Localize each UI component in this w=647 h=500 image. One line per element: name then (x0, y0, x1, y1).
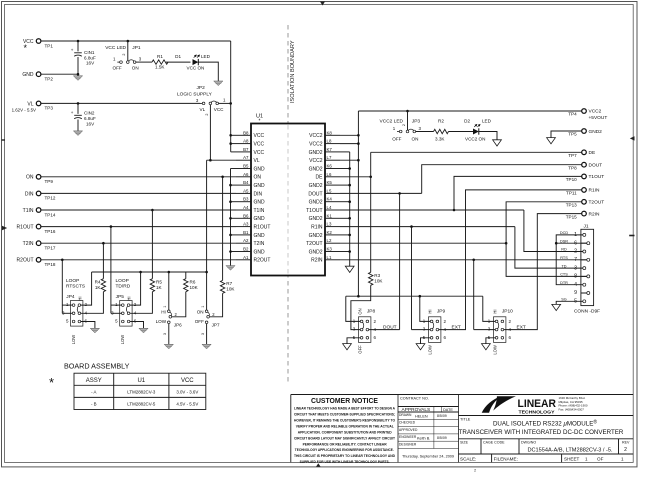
U1 pin B7 (VCC) stub (236, 147, 264, 156)
net label VCC2 +5VOUT (589, 109, 608, 121)
wire R2OUT signal TP18 to A1 (41, 259, 236, 261)
svg-text:1.5K: 1.5K (155, 65, 165, 70)
svg-text:TITLE: TITLE (460, 418, 471, 422)
R3 value labels (374, 273, 383, 284)
svg-text:HI: HI (427, 309, 432, 313)
test point TP4 (582, 109, 587, 114)
junction GND/B6 (229, 217, 232, 220)
wire T1IN drop to R5 (151, 210, 153, 279)
wire R1IN drop to JP9 pin3 (411, 227, 413, 330)
test point TP8 (582, 162, 587, 167)
svg-text:CIRCUIT BOARD LAYOUT MAY SIGNI: CIRCUIT BOARD LAYOUT MAY SIGNIFICANTLY A… (294, 436, 396, 440)
svg-text:TP11: TP11 (566, 191, 577, 196)
svg-text:3: 3 (201, 333, 205, 335)
ground GND2 vertical (345, 266, 354, 272)
op-module U1 LTM2882 body (251, 124, 325, 276)
svg-text:2: 2 (402, 124, 406, 126)
svg-text:CTS: CTS (560, 273, 568, 277)
title block frame (291, 395, 633, 463)
wire GND2 vertical (349, 152, 351, 266)
svg-text:SIZE: SIZE (460, 440, 469, 444)
junction R2IN/JP10 (472, 259, 475, 262)
svg-text:DC1554A-A/B, LTM2882CV-3 / -5.: DC1554A-A/B, LTM2882CV-3 / -5. (527, 448, 613, 454)
U1 pin K8 (VCC2) stub (309, 130, 340, 139)
svg-text:LOW: LOW (71, 335, 76, 345)
svg-text:VCC2 LED: VCC2 LED (380, 118, 404, 124)
junction HI rail/VCC2 vertical (357, 295, 360, 298)
wire JP4 pin3 stub (62, 312, 72, 314)
svg-text:K4: K4 (327, 197, 333, 202)
wire JP7 pin3 to ground (206, 324, 208, 345)
wire JP10 pin3 stub (474, 329, 496, 331)
wire JP10 pin5 to ground (486, 338, 495, 344)
svg-text:TP7: TP7 (568, 153, 577, 158)
svg-text:VERIFY PROPER AND RELIABLE OPE: VERIFY PROPER AND RELIABLE OPERATION IN … (296, 424, 395, 428)
svg-text:8/5/09: 8/5/09 (437, 414, 447, 418)
svg-text:JP7: JP7 (212, 323, 220, 328)
svg-text:R7: R7 (226, 281, 232, 286)
U1 pin K1 (GND2) stub (309, 213, 340, 222)
wire CIN2 top lead (77, 103, 79, 114)
svg-text:DESIGNER: DESIGNER (399, 442, 417, 446)
svg-text:LOOP: LOOP (66, 278, 79, 284)
svg-text:HELEN: HELEN (415, 414, 428, 418)
svg-text:B5: B5 (243, 164, 249, 169)
wire JP9 pin3 stub (412, 329, 431, 331)
svg-text:TP12: TP12 (45, 196, 56, 201)
svg-text:TP13: TP13 (566, 203, 577, 208)
CIN2 value labels (84, 111, 96, 127)
U1 pin L4 (T1OUT) stub (306, 205, 340, 214)
J1 pin 1 (DCD) (560, 231, 586, 238)
wire D1 cathode to ground (198, 62, 218, 81)
svg-text:U1: U1 (137, 378, 145, 384)
wire VL pull-up rail (92, 271, 207, 273)
wire GND TP2 (41, 73, 78, 75)
svg-text:T1OUT: T1OUT (306, 208, 322, 214)
svg-text:Fax: (408)434-0507: Fax: (408)434-0507 (559, 407, 585, 411)
junction DOUT/JP8 (398, 192, 401, 195)
U1 reference label (256, 114, 263, 125)
svg-text:OFF: OFF (392, 137, 401, 142)
U1 pin B3 (GND) stub (236, 197, 265, 206)
svg-text:TP10: TP10 (566, 177, 577, 182)
junction GND2/K3 (348, 250, 351, 253)
svg-text:K6: K6 (327, 164, 333, 169)
wire R5 to JP5 pin4 (130, 292, 152, 314)
svg-text:1: 1 (201, 306, 205, 308)
wire ON drop to R7 (222, 177, 224, 281)
ground JP9 (416, 344, 425, 350)
svg-text:GND: GND (254, 166, 266, 172)
svg-text:1: 1 (585, 456, 588, 461)
svg-text:GND: GND (254, 249, 266, 255)
R5 value labels (156, 279, 163, 290)
svg-text:J1: J1 (584, 223, 589, 229)
wire R6 to JP6 pin2 (172, 292, 186, 317)
wire L7 to VCC2 vertical (340, 159, 358, 161)
svg-text:1: 1 (621, 456, 624, 461)
test point TP14 (36, 208, 41, 213)
board assembly table (74, 373, 206, 409)
svg-text:VCC: VCC (181, 378, 194, 384)
svg-text:L7: L7 (327, 155, 332, 160)
JP4 pin numbers (62, 302, 88, 323)
svg-text:TP8: TP8 (568, 165, 577, 170)
svg-text:VCC2: VCC2 (309, 133, 323, 139)
svg-text:DATE: DATE (443, 408, 453, 412)
svg-text:L8: L8 (327, 139, 332, 144)
svg-text:3: 3 (163, 333, 167, 335)
svg-text:R2OUT: R2OUT (254, 258, 271, 264)
junction R2OUT/JP4 (61, 259, 64, 262)
ground JP8 (343, 344, 352, 350)
svg-text:VCC ON: VCC ON (187, 66, 205, 71)
ground JP5 (139, 328, 148, 333)
wire B1 connect (231, 234, 237, 236)
U1 pin A5 (DIN) stub (236, 188, 263, 197)
svg-text:TP1: TP1 (45, 43, 54, 48)
svg-text:LOW: LOW (493, 345, 498, 355)
svg-text:VCC2 ON: VCC2 ON (465, 137, 485, 142)
svg-text:CIN1: CIN1 (84, 50, 95, 55)
ground below CIN1 (73, 76, 82, 81)
wire B4 connect (231, 184, 237, 186)
wire JP5 pin6 to ground (130, 322, 143, 329)
resistor R2 (434, 129, 449, 133)
svg-text:RTS: RTS (560, 256, 568, 260)
svg-text:R2OUT: R2OUT (17, 258, 34, 264)
junction GND/CIN1 (77, 73, 80, 76)
svg-text:TP4: TP4 (568, 112, 577, 117)
svg-text:LOOP: LOOP (116, 278, 129, 284)
U1 pin K6 (GND2) stub (309, 164, 340, 173)
test point TP16 (36, 224, 41, 229)
svg-text:D1: D1 (175, 54, 181, 59)
isolation boundary dashed line (287, 25, 289, 385)
wire R1IN to J1 TD (515, 227, 583, 269)
svg-text:- B: - B (91, 402, 97, 407)
svg-text:T2OUT: T2OUT (306, 241, 322, 247)
junction GND2/K4 (348, 200, 351, 203)
wire K6 to GND2 vertical (340, 168, 350, 170)
svg-text:TD/RD: TD/RD (116, 284, 131, 290)
svg-text:D2: D2 (464, 119, 470, 124)
svg-text:L2: L2 (327, 238, 332, 243)
wire JP5 pin3 stub (111, 312, 122, 314)
svg-text:ON: ON (26, 175, 34, 181)
U1 pin L8 (VCC2) stub (309, 139, 340, 148)
wire R2OUT drop to JP4 (61, 260, 63, 314)
border tick right upper (630, 136, 635, 140)
svg-text:1.62V - 5.5V: 1.62V - 5.5V (12, 107, 36, 112)
border tick left middle (2, 226, 7, 230)
junction VCC2/L8 (357, 142, 360, 145)
logo address block (559, 396, 588, 411)
junction VCC/CIN1 (77, 40, 80, 43)
J1 pin 8 (CTS) (560, 273, 590, 280)
wire VCC2 HI rail (346, 295, 483, 297)
junction T1OUT/TP10 (453, 209, 456, 212)
svg-text:R2: R2 (438, 119, 444, 124)
svg-text:TP2: TP2 (45, 77, 54, 82)
wire T1OUT to J1 RD (524, 210, 583, 252)
U1 pin B1 (GND) stub (236, 230, 265, 239)
wire JP3 pin3 to R2 (416, 131, 434, 133)
svg-text:3.0V - 3.6V: 3.0V - 3.6V (176, 390, 198, 395)
svg-text:A5: A5 (243, 188, 249, 193)
svg-text:LTM2882CV-5: LTM2882CV-5 (127, 402, 156, 407)
resistor R3 (369, 272, 373, 285)
wire T2IN drop to R4 (102, 243, 104, 279)
JP8 pin numbers (353, 319, 377, 341)
svg-text:JP5: JP5 (116, 294, 125, 300)
junction GND2/K5 (348, 184, 351, 187)
test point TP17 (36, 241, 41, 246)
svg-text:*: * (49, 375, 54, 390)
svg-text:DUAL ISOLATED RS232 μMODULE®: DUAL ISOLATED RS232 μMODULE® (493, 418, 597, 427)
junction VCC2/L7 (357, 159, 360, 162)
resistor R6 (184, 279, 188, 292)
junction VL rail2 end (205, 271, 208, 274)
svg-text:6.8uF: 6.8uF (84, 55, 96, 60)
junction rail/JP5 pin2 (139, 271, 142, 274)
svg-text:GND2: GND2 (309, 216, 323, 222)
LED D1 (193, 55, 200, 65)
svg-text:A3: A3 (243, 222, 249, 227)
svg-text:VCC2: VCC2 (589, 109, 602, 115)
U1 pin L2 (T2OUT) stub (306, 238, 340, 247)
wire VCC2 rail to TP4 (358, 110, 581, 112)
svg-text:R1IN: R1IN (589, 188, 600, 194)
svg-text:TECHNOLOGY APPLICATIONS ENGINE: TECHNOLOGY APPLICATIONS ENGINEERING FOR … (295, 448, 394, 452)
svg-text:+5VOUT: +5VOUT (589, 115, 608, 121)
wire DOUT riser to TP8 (422, 165, 582, 194)
svg-text:PERFORMANCE OR RELIABILITY. C: PERFORMANCE OR RELIABILITY. CONTACT LINE… (303, 442, 387, 446)
svg-text:GND2: GND2 (309, 200, 323, 206)
R4 value labels (95, 279, 102, 290)
svg-text:B1: B1 (243, 230, 249, 235)
svg-text:EXT: EXT (517, 324, 526, 330)
svg-text:L6: L6 (327, 172, 332, 177)
ground JP6 (164, 344, 173, 349)
jumper JP6 (168, 310, 172, 324)
wire JP2 pin1 to VCC vertical (219, 102, 231, 104)
wire B8 connect (231, 134, 236, 136)
svg-text:GND2: GND2 (309, 183, 323, 189)
svg-text:LED: LED (201, 54, 211, 59)
wire K7 to GND2 vertical (340, 151, 350, 153)
border tick right middle (629, 235, 634, 237)
svg-text:GND2: GND2 (309, 233, 323, 239)
wire R1IN from L3 (340, 226, 515, 228)
J1 pin 9 (574, 290, 590, 296)
LED D2 (473, 124, 480, 134)
jumper JP2 (200, 101, 219, 105)
ground below D2 (493, 140, 502, 146)
svg-text:RTSCTS: RTSCTS (66, 284, 85, 290)
wire CIN1 bottom lead (77, 57, 79, 74)
J1 pin 4 (DTR) (560, 281, 586, 288)
wire VCC2 vertical (357, 111, 359, 296)
U1 pin K2 (GND2) stub (309, 230, 340, 239)
svg-text:A4: A4 (243, 205, 249, 210)
J1 pin 9 stub (581, 292, 587, 294)
svg-text:JP2: JP2 (197, 85, 206, 91)
svg-text:THIS CIRCUIT IS PROPRIETARY TO: THIS CIRCUIT IS PROPRIETARY TO LINEAR TE… (294, 454, 395, 458)
jumper JP1 (117, 60, 136, 64)
U1 pin K5 (GND2) stub (309, 180, 340, 189)
test point TP5 (582, 129, 587, 134)
svg-text:TP5: TP5 (568, 132, 577, 137)
U1 pin A8 (VCC) stub (236, 139, 264, 148)
U1 pin B8 (VCC) stub (236, 130, 264, 139)
wire D2 cathode to ground (479, 132, 497, 140)
svg-text:LOW: LOW (428, 345, 433, 355)
ground JP10 (482, 344, 491, 350)
wire L8 to VCC2 vertical (340, 143, 358, 145)
svg-text:LOW: LOW (156, 319, 167, 324)
svg-text:ON: ON (132, 65, 139, 70)
svg-text:VCC LED: VCC LED (105, 45, 126, 51)
U1 pin A1 (R2OUT) stub (236, 255, 270, 264)
svg-text:CIN2: CIN2 (84, 111, 95, 116)
U1 pin L5 (DOUT) stub (308, 188, 340, 197)
Linear Technology logo (482, 396, 556, 415)
svg-text:T1IN: T1IN (23, 208, 34, 214)
svg-text:K2: K2 (327, 230, 333, 235)
wire K4 to GND2 vertical (340, 201, 350, 203)
svg-text:CIRCUIT THAT MEETS CUSTOMER-SU: CIRCUIT THAT MEETS CUSTOMER-SUPPLIED SPE… (294, 413, 395, 417)
svg-text:10K: 10K (226, 287, 235, 292)
svg-text:DIN: DIN (25, 191, 34, 197)
svg-text:HI: HI (78, 296, 83, 300)
U1 pin B2 (GND) stub (236, 247, 265, 256)
test point TP7 (582, 150, 587, 155)
wire HI rail to JP10 pin1 (483, 296, 496, 321)
junction VL net at A7 (209, 159, 212, 162)
wire A8 connect (231, 143, 236, 145)
svg-text:K7: K7 (327, 147, 333, 152)
wire ON signal TP9 to A6 (41, 176, 236, 178)
svg-text:HI: HI (492, 309, 497, 313)
svg-text:TP16: TP16 (45, 229, 56, 234)
svg-text:OFF: OFF (358, 345, 363, 354)
wire J1 DCD-DSR-DTR tie (556, 235, 583, 285)
wire JP3 pin2 riser (407, 111, 409, 130)
junction GND2/K1 (348, 217, 351, 220)
svg-text:T1IN: T1IN (254, 208, 265, 214)
ground B-side GND (226, 266, 235, 271)
svg-text:GND2: GND2 (589, 129, 603, 135)
J1 pin 6 (DSR) (560, 239, 590, 246)
junction VCC/B8 (229, 134, 232, 137)
svg-text:2: 2 (624, 447, 627, 453)
svg-text:ASSY: ASSY (86, 378, 102, 384)
junction DE (369, 176, 372, 179)
svg-text:DE: DE (316, 175, 324, 181)
junction VCC/JP1 (127, 40, 130, 43)
svg-text:CAGE CODE: CAGE CODE (483, 440, 505, 444)
svg-text:R5: R5 (156, 279, 162, 284)
wire JP6 pin3 to ground (168, 324, 170, 345)
junction GND2/K6 (348, 167, 351, 170)
U1 pin A3 (R1OUT) stub (236, 222, 270, 231)
svg-text:JP4: JP4 (66, 294, 75, 300)
test point TP2 (36, 72, 41, 77)
R6 value labels (190, 279, 199, 290)
wire T2OUT to J1 CTS (506, 243, 587, 276)
junction GND/B4 (229, 184, 232, 187)
wire TP5 to GND2 ground (551, 131, 582, 138)
wire T2OUT from L2 (340, 242, 506, 244)
wire T2IN signal TP17 to A2 (41, 242, 236, 244)
junction GND/B1 (229, 234, 232, 237)
svg-text:SCALE:: SCALE: (460, 456, 476, 461)
test point TP10 (582, 174, 587, 179)
junction DSR tie (555, 242, 558, 245)
junction T1IN/R5 (151, 209, 154, 212)
junction VCC2/JP3 (406, 110, 409, 113)
J1 pin 2 (RD) (561, 248, 586, 255)
wire B2 connect (231, 251, 237, 253)
svg-text:B2: B2 (243, 247, 249, 252)
svg-text:LED: LED (482, 119, 492, 124)
svg-text:JP8: JP8 (367, 308, 376, 314)
svg-text:R1IN: R1IN (311, 225, 323, 231)
wire VCC rail (41, 40, 231, 42)
wire R4 to JP4 pin4 (81, 292, 104, 314)
svg-text:TP18: TP18 (45, 262, 56, 267)
svg-text:9: 9 (574, 290, 577, 296)
wire K3 to GND2 vertical (340, 251, 350, 253)
test point TP18 (36, 258, 41, 263)
U1 pin L1 (R2IN) stub (311, 255, 340, 264)
svg-text:+: + (71, 47, 74, 52)
CIN1 value labels (84, 50, 96, 66)
wire T1OUT from L4 (340, 209, 524, 211)
resistor R1 (152, 60, 168, 64)
wire JP4 pin2 to rail (81, 272, 92, 305)
wire B7 connect (231, 151, 236, 153)
svg-text:JP1: JP1 (132, 45, 141, 51)
svg-text:VCC: VCC (214, 107, 224, 112)
svg-text:GND2: GND2 (309, 249, 323, 255)
wire R1OUT signal TP16 to A3 (41, 226, 236, 228)
jumper JP3 (397, 129, 416, 133)
svg-text:8: 8 (574, 274, 577, 280)
test point TP3 (36, 101, 41, 106)
wire DE riser to TP7 (370, 152, 372, 177)
svg-text:1K: 1K (95, 285, 102, 290)
svg-text:SHEET: SHEET (564, 456, 580, 461)
svg-text:GND2: GND2 (309, 166, 323, 172)
resistor R4 (101, 279, 105, 292)
wire R3 to JP8 pin3 (351, 285, 371, 329)
capacitor CIN2 (71, 110, 82, 119)
junction T2IN/R4 (102, 242, 105, 245)
wire JP2 pin2 to VL pin A7 (209, 105, 211, 160)
svg-text:2: 2 (205, 113, 209, 115)
svg-text:A2: A2 (243, 238, 249, 243)
svg-text:2: 2 (122, 53, 126, 55)
wire DE from L6 (340, 176, 371, 178)
junction HI rail/JP9 pin1 (419, 295, 422, 298)
U1 pin B6 (GND) stub (236, 213, 265, 222)
svg-text:DWG/NO: DWG/NO (521, 440, 536, 444)
svg-text:OFF: OFF (113, 65, 122, 70)
wire K2 to GND2 vertical (340, 234, 350, 236)
